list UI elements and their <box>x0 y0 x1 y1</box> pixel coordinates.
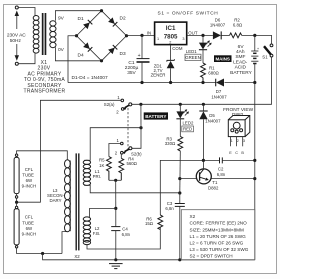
label R5 1K <box>99 157 105 168</box>
label C3 6.8n <box>165 201 174 211</box>
diode D5 <box>199 104 207 160</box>
wire L2 top lead <box>90 208 116 217</box>
svg-text:2: 2 <box>169 41 171 45</box>
svg-text:PRI.: PRI. <box>93 174 101 179</box>
label 1 (S2b) <box>117 138 120 143</box>
svg-text:D7: D7 <box>216 89 222 94</box>
svg-text:L2 = 6 TURN OF 26 SWG: L2 = 6 TURN OF 26 SWG <box>190 241 244 246</box>
transformer X1 secondary winding <box>50 21 56 48</box>
junction R1 on ground rail <box>201 81 204 84</box>
battery minus column down <box>254 83 256 260</box>
svg-text:D2: D2 <box>120 15 126 21</box>
wire L1 bottom line <box>84 185 180 192</box>
resistor R3 <box>178 136 183 151</box>
label ZD1 2.7V ZENER <box>151 63 166 77</box>
svg-text:IC1: IC1 <box>166 25 176 32</box>
svg-text:FRONT VIEW: FRONT VIEW <box>223 107 253 113</box>
label MAINS box <box>214 55 232 62</box>
wire S2a pole node down to junction <box>140 104 142 127</box>
label COM <box>172 46 183 51</box>
wire 0V tap to bridge bottom <box>55 47 101 61</box>
X1 label block <box>24 60 66 95</box>
svg-text:4Ah: 4Ah <box>236 49 245 55</box>
label X2 <box>74 254 80 259</box>
svg-text:1: 1 <box>157 37 159 41</box>
label S1 <box>262 54 268 59</box>
junction R5/R4 merge <box>114 179 117 182</box>
CFL tube 2 <box>14 202 19 248</box>
svg-text:D3: D3 <box>120 51 126 57</box>
svg-text:SMF: SMF <box>235 54 245 60</box>
svg-text:S2(b): S2(b) <box>131 151 142 156</box>
junction C4 on ground line <box>114 258 117 261</box>
label IN <box>147 31 151 36</box>
svg-text:SIZE: 25MM×13MM×8MM: SIZE: 25MM×13MM×8MM <box>190 227 245 232</box>
svg-text:C: C <box>235 151 238 155</box>
junction C3 on ground line <box>178 258 181 261</box>
svg-text:6,8n: 6,8n <box>165 206 174 211</box>
230V AC 50Hz annotation arrows <box>15 11 19 61</box>
svg-text:L3 = 530 TURN OF 32 SWG: L3 = 530 TURN OF 32 SWG <box>190 247 249 252</box>
wire L2 bottom to R6 bottom <box>87 227 160 249</box>
svg-text:COM: COM <box>172 46 183 51</box>
wire junction down to S2b pole <box>132 128 141 149</box>
resistor R4 <box>119 158 124 180</box>
transistor package front view <box>228 116 250 137</box>
switch S2(a) <box>121 99 132 110</box>
svg-text:R5: R5 <box>99 157 105 162</box>
wire bridge minus corner down to ground rail <box>68 36 77 83</box>
svg-text:ACID: ACID <box>235 65 247 71</box>
wire CFL2 bottom to tubes return line <box>17 248 62 254</box>
diode D7 <box>216 79 224 87</box>
label C2 6.8n <box>217 167 226 178</box>
svg-text:0V: 0V <box>58 47 65 53</box>
bridge corner junction dots <box>75 9 128 62</box>
node S2a pole branch <box>139 103 142 106</box>
wire IC1 OUT to D6 <box>187 34 213 36</box>
wire S1 bottom down and left (switched supply) <box>132 57 272 104</box>
label GREEN box <box>185 54 201 60</box>
svg-text:6V: 6V <box>238 44 245 50</box>
transformer X2 L1 primary winding <box>83 160 90 185</box>
resistor R2 <box>230 33 242 38</box>
svg-text:LED1: LED1 <box>186 49 197 54</box>
node C1 tap <box>140 34 143 37</box>
dashed DPDT link <box>127 108 129 150</box>
wire S2b contact1 to R5 <box>109 144 121 157</box>
label 1 (S2a) <box>117 95 120 100</box>
junction L2 top node <box>114 207 117 210</box>
svg-text:1N4007: 1N4007 <box>210 23 226 28</box>
junction emitter on battery minus column <box>253 177 256 180</box>
svg-text:D1: D1 <box>78 16 84 22</box>
junction ZD1 on ground rail <box>169 81 172 84</box>
svg-text:LED2: LED2 <box>183 121 194 126</box>
bridge rectifier diamond wires <box>77 11 127 61</box>
label D5 1N4007 <box>205 113 221 124</box>
svg-text:D5: D5 <box>209 113 215 118</box>
svg-text:LEAD-: LEAD- <box>233 59 248 65</box>
svg-text:1K: 1K <box>99 163 104 168</box>
transistor T1 <box>196 169 211 184</box>
svg-text:35V: 35V <box>127 70 136 76</box>
CFL tube 1 <box>14 154 19 202</box>
label R3 330ohm <box>165 136 176 146</box>
capacitor C4 <box>111 208 120 259</box>
resistor R5 <box>107 157 112 181</box>
wire 9V tap to bridge top <box>55 11 101 21</box>
transformer X1 primary winding <box>33 16 39 54</box>
label S2(b) <box>131 151 142 156</box>
label T1 D882 <box>208 180 219 191</box>
diode D3 (bottom-right edge) <box>108 45 117 54</box>
svg-text:X2: X2 <box>190 214 196 219</box>
wire L1 top lead up and right to S2 pole net <box>84 128 141 161</box>
svg-text:BATTERY: BATTERY <box>145 114 166 119</box>
label 2 (S2a) <box>116 110 119 115</box>
battery 6V 4Ah <box>251 35 260 82</box>
diode D6 <box>213 31 230 39</box>
wire CFL1 top to L3 top <box>17 151 68 160</box>
node LED1 tap <box>201 34 204 37</box>
diode D2 (top-right edge) <box>108 17 117 26</box>
label D1-D4 = 1N4007 <box>72 75 108 81</box>
svg-text:TRANSFORMER: TRANSFORMER <box>24 89 66 95</box>
junction C2 right on battery minus column <box>253 159 256 162</box>
resistor R1 <box>201 63 206 83</box>
svg-text:+: + <box>138 53 141 59</box>
ground rail right of D7 to battery minus <box>225 82 255 84</box>
label D1 <box>78 16 84 22</box>
svg-text:9V: 9V <box>58 16 65 22</box>
label S2(a) <box>104 102 115 107</box>
notes box <box>181 210 255 260</box>
svg-text:OUT: OUT <box>188 31 198 36</box>
wire S2b contact2 to R4 <box>120 154 122 158</box>
wire emitter to battery minus column <box>211 178 255 180</box>
svg-text:T1: T1 <box>212 180 218 185</box>
ground rail (negative bus) <box>68 82 216 84</box>
label FRONT VIEW D882 <box>223 107 253 118</box>
label C1 2200u 35V <box>125 60 139 76</box>
capacitor C3 <box>175 193 185 260</box>
svg-text:D1-D4 = 1N4007: D1-D4 = 1N4007 <box>72 75 108 81</box>
svg-text:2: 2 <box>237 139 239 143</box>
svg-text:TUBE: TUBE <box>22 221 34 226</box>
capacitor C2 <box>220 157 255 163</box>
svg-text:560Ω: 560Ω <box>126 161 137 166</box>
svg-text:X2: X2 <box>74 254 80 259</box>
svg-text:CFL: CFL <box>25 215 34 220</box>
label RED box <box>182 126 194 132</box>
svg-text:6,8n: 6,8n <box>122 232 131 237</box>
svg-text:CFL: CFL <box>25 167 34 172</box>
package pins <box>231 137 243 147</box>
label 2 (S2b) <box>115 151 118 156</box>
label 9V <box>58 16 65 22</box>
ground symbol <box>109 264 123 269</box>
transformer X2 L3 secondary winding <box>65 160 71 232</box>
svg-text:DARY: DARY <box>50 198 62 203</box>
wire collector down to T1 <box>202 160 204 169</box>
label OUT <box>188 31 198 36</box>
label LED1 <box>186 49 197 54</box>
junction tubes return <box>41 252 44 255</box>
LED2 <box>176 104 189 136</box>
CFL tube 1 label <box>22 167 36 189</box>
wire bridge plus corner to IC1 IN <box>127 34 155 36</box>
svg-text:15Ω: 15Ω <box>145 221 154 226</box>
node battery plus <box>253 34 256 37</box>
svg-text:6W: 6W <box>26 226 33 231</box>
svg-text:MAINS: MAINS <box>215 56 230 61</box>
svg-text:IN: IN <box>147 31 151 36</box>
capacitor C1 <box>137 35 150 82</box>
svg-text:680Ω: 680Ω <box>208 71 219 76</box>
junction C1 on ground rail <box>140 81 143 84</box>
resistor R6 <box>158 215 163 230</box>
svg-text:6,8n: 6,8n <box>217 172 226 177</box>
label BATTERY box <box>144 112 168 119</box>
svg-text:S1: S1 <box>262 54 268 59</box>
junction battery minus on ground rail <box>253 81 256 84</box>
wire R6 top up to collector line <box>160 160 219 215</box>
label 230V AC 50Hz <box>7 32 26 44</box>
svg-text:C4: C4 <box>122 226 128 231</box>
svg-text:D882: D882 <box>208 186 219 191</box>
label D4 <box>78 53 84 59</box>
label 0V <box>58 47 65 53</box>
svg-text:E: E <box>229 151 232 155</box>
svg-text:BATTERY: BATTERY <box>230 70 252 76</box>
junction collector node <box>202 159 205 162</box>
switch S2(b) <box>121 142 132 154</box>
label R4 560ohm <box>126 157 137 166</box>
svg-text:1N4007: 1N4007 <box>205 119 221 124</box>
label C4 6.8n <box>122 226 131 237</box>
CFL tube 2 label <box>22 215 36 237</box>
label S1 = ON/OFF SWITCH <box>158 11 219 17</box>
pin name labels E C B <box>229 151 244 155</box>
svg-text:TUBE: TUBE <box>22 173 34 178</box>
label D3 <box>120 51 126 57</box>
junction CFL middle <box>15 201 18 204</box>
svg-text:S2 = DPDT SWITCH: S2 = DPDT SWITCH <box>190 254 233 259</box>
svg-text:RED: RED <box>183 127 192 132</box>
op-amp/regulator IC1 7805 box <box>155 22 187 44</box>
label LED2 <box>183 121 194 126</box>
battery label block <box>230 44 252 76</box>
label R6 15ohm <box>145 216 154 226</box>
label R1 680ohm <box>208 65 219 75</box>
transformer X2 L2 feedback winding <box>83 217 90 245</box>
node LED2 tap <box>179 103 182 106</box>
svg-text:330Ω: 330Ω <box>165 141 176 146</box>
svg-text:S1 = ON/OFF SWITCH: S1 = ON/OFF SWITCH <box>158 11 219 17</box>
label D7 1N4007 <box>211 89 227 99</box>
junction L1 bottom / C3 top <box>178 191 181 194</box>
AC input terminal top <box>15 6 18 9</box>
transformer X2 core <box>76 153 80 250</box>
wire supply line feed to CFL middle (y=100 line) <box>18 100 121 202</box>
notes text <box>190 214 249 259</box>
svg-text:L1 = 20 TURN OF 26 SWG: L1 = 20 TURN OF 26 SWG <box>190 234 247 239</box>
LED1 <box>199 35 212 63</box>
wire base to T1 <box>180 178 197 180</box>
svg-text:6.8Ω: 6.8Ω <box>233 23 243 28</box>
svg-text:CORE: FERRITE (EE) 2NO: CORE: FERRITE (EE) 2NO <box>190 221 248 226</box>
svg-text:3: 3 <box>243 139 245 143</box>
label R2 6.8ohm <box>233 18 243 28</box>
svg-text:F.B.: F.B. <box>93 231 100 236</box>
pin number labels 1 2 3 <box>231 139 245 143</box>
svg-text:9-INCH: 9-INCH <box>22 184 36 189</box>
AC input terminal bottom <box>15 62 18 65</box>
junction S2 pole net <box>139 126 142 129</box>
svg-text:GREEN: GREEN <box>185 55 200 60</box>
label D6 1N4007 <box>210 18 226 28</box>
switch S1 <box>264 44 273 57</box>
wire merge down to L2 top node <box>115 180 117 208</box>
label L1 PRI. <box>93 169 101 179</box>
label L2 F.B. <box>93 226 100 236</box>
svg-text:1: 1 <box>231 139 233 143</box>
svg-text:3: 3 <box>182 37 184 41</box>
diode D1 (top-left edge) <box>83 20 92 29</box>
node D5 tap <box>202 103 205 106</box>
svg-text:D4: D4 <box>78 53 84 59</box>
svg-text:9-INCH: 9-INCH <box>22 232 36 237</box>
label D2 <box>120 15 126 21</box>
svg-text:230V AC: 230V AC <box>7 32 26 38</box>
svg-text:S2(a): S2(a) <box>104 102 115 107</box>
wire R5/R4 merge <box>109 179 121 181</box>
wire R3 bottom down to base node <box>179 151 182 193</box>
label L3 SECONDARY <box>47 188 64 203</box>
wire terminal-top to X1 primary top <box>18 8 35 16</box>
zener ZD1 <box>167 59 175 82</box>
wire tubes return down to ground line <box>43 254 255 260</box>
junction base node <box>178 177 181 180</box>
transformer X1 core <box>42 13 47 55</box>
wire terminal-bottom to X1 primary bottom <box>18 53 35 64</box>
svg-text:B: B <box>241 151 244 155</box>
wire L3 bottom lead <box>62 232 67 254</box>
svg-text:50Hz: 50Hz <box>10 38 22 44</box>
svg-text:1N4007: 1N4007 <box>211 95 227 100</box>
diode D4 (bottom-left edge) <box>83 42 92 51</box>
wire COM down <box>170 45 172 61</box>
svg-text:7805: 7805 <box>164 34 178 41</box>
svg-text:6W: 6W <box>26 178 33 183</box>
svg-text:ZENER: ZENER <box>151 73 166 78</box>
svg-text:C2: C2 <box>218 167 224 172</box>
wire R2 to battery plus node and S1 <box>242 35 272 44</box>
